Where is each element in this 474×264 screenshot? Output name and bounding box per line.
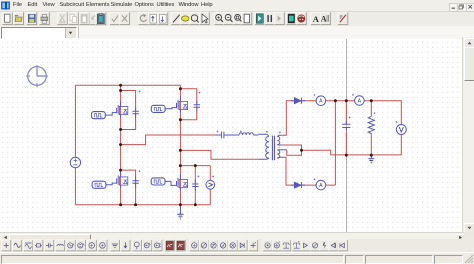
wire: secondary upper-bottom lead to tap node: [281, 145, 302, 150]
svg-text:A: A: [358, 98, 362, 104]
menu bar: [0, 0, 474, 12]
svg-text:A: A: [313, 14, 320, 24]
wire: phase B tap to primary bottom: [180, 150, 258, 159]
ground (output): [368, 155, 374, 164]
mosfet Q1: [117, 101, 128, 118]
status bar: [0, 252, 474, 263]
wire: filter cap branch top: [345, 101, 347, 125]
wire: lower-right probe branch: [209, 166, 211, 205]
voltage probe VP1: [206, 176, 215, 190]
horizontal scrollbar: [0, 232, 464, 240]
mosfet Q4: [177, 174, 188, 191]
wire: bottom rail: [75, 204, 210, 206]
wire: phase A tap to series branch: [121, 135, 216, 145]
ammeter A2: [352, 94, 364, 105]
ammeter A3: [314, 179, 326, 190]
svg-text:A: A: [319, 99, 323, 105]
svg-text:A: A: [319, 183, 323, 189]
wire: snubber loop lower-left: [121, 170, 136, 205]
wire: rectifier output node vertical: [334, 101, 336, 185]
schematic drawing: [0, 39, 462, 232]
wire: top rectifier branch: [302, 101, 401, 125]
wire: filter cap branch bottom: [345, 132, 347, 156]
diode D2: [291, 182, 305, 188]
wire: center tap jog: [287, 150, 302, 156]
schematic canvas: [0, 39, 462, 232]
gating block G1: [92, 112, 117, 119]
load resistor R1: [368, 112, 375, 134]
gating block G4: [151, 178, 176, 186]
gating block G3: [92, 181, 117, 188]
wire: lower-right cap branch: [194, 166, 196, 205]
combo row: [0, 26, 474, 40]
ammeter A1: [314, 94, 326, 105]
ground (bridge): [177, 205, 183, 220]
snubber cap C1: [132, 91, 140, 118]
blocking cap Cb: [216, 131, 240, 139]
gating block G2: [151, 105, 176, 112]
voltmeter VM1: [395, 121, 406, 134]
snubber cap C3: [132, 170, 140, 187]
wire: secondary top lead to top branch: [281, 101, 294, 136]
snubber cap C2: [194, 92, 201, 112]
series inductor Llk: [239, 131, 259, 136]
wire: voltmeter branch bottom: [400, 135, 402, 156]
diode D1: [291, 98, 305, 104]
mosfet Q2: [177, 96, 188, 113]
wire: snubber loop upper-right: [180, 89, 196, 120]
wire: return rail with step: [302, 150, 402, 155]
junction dots: [119, 84, 373, 207]
element toolbar: [0, 239, 474, 252]
transformer TX1: [259, 131, 287, 160]
snubber cap C4: [192, 176, 199, 191]
wire: right bridge leg: [179, 85, 181, 205]
page boundary line: [346, 39, 348, 232]
wire: bottom rectifier branch: [281, 157, 335, 185]
main toolbar (SVG strip): [0, 11, 474, 26]
svg-text:A: A: [321, 14, 327, 23]
vertical scrollbar: [462, 37, 474, 232]
filter cap Cf: [342, 117, 350, 132]
wire: snubber loop upper-left: [121, 91, 136, 130]
wire: left edge bottom (source to bottom rail): [74, 168, 76, 205]
clock / time symbol: [26, 65, 48, 87]
wire: load resistor branch: [370, 101, 372, 155]
wire: top rail: [75, 84, 180, 86]
mosfet Q3: [117, 172, 128, 189]
wire: left bridge leg: [120, 85, 122, 205]
wire: lower-right cell top: [180, 165, 210, 167]
wire: left edge top (source to top rail): [74, 85, 76, 157]
dc source V1: [70, 157, 80, 167]
